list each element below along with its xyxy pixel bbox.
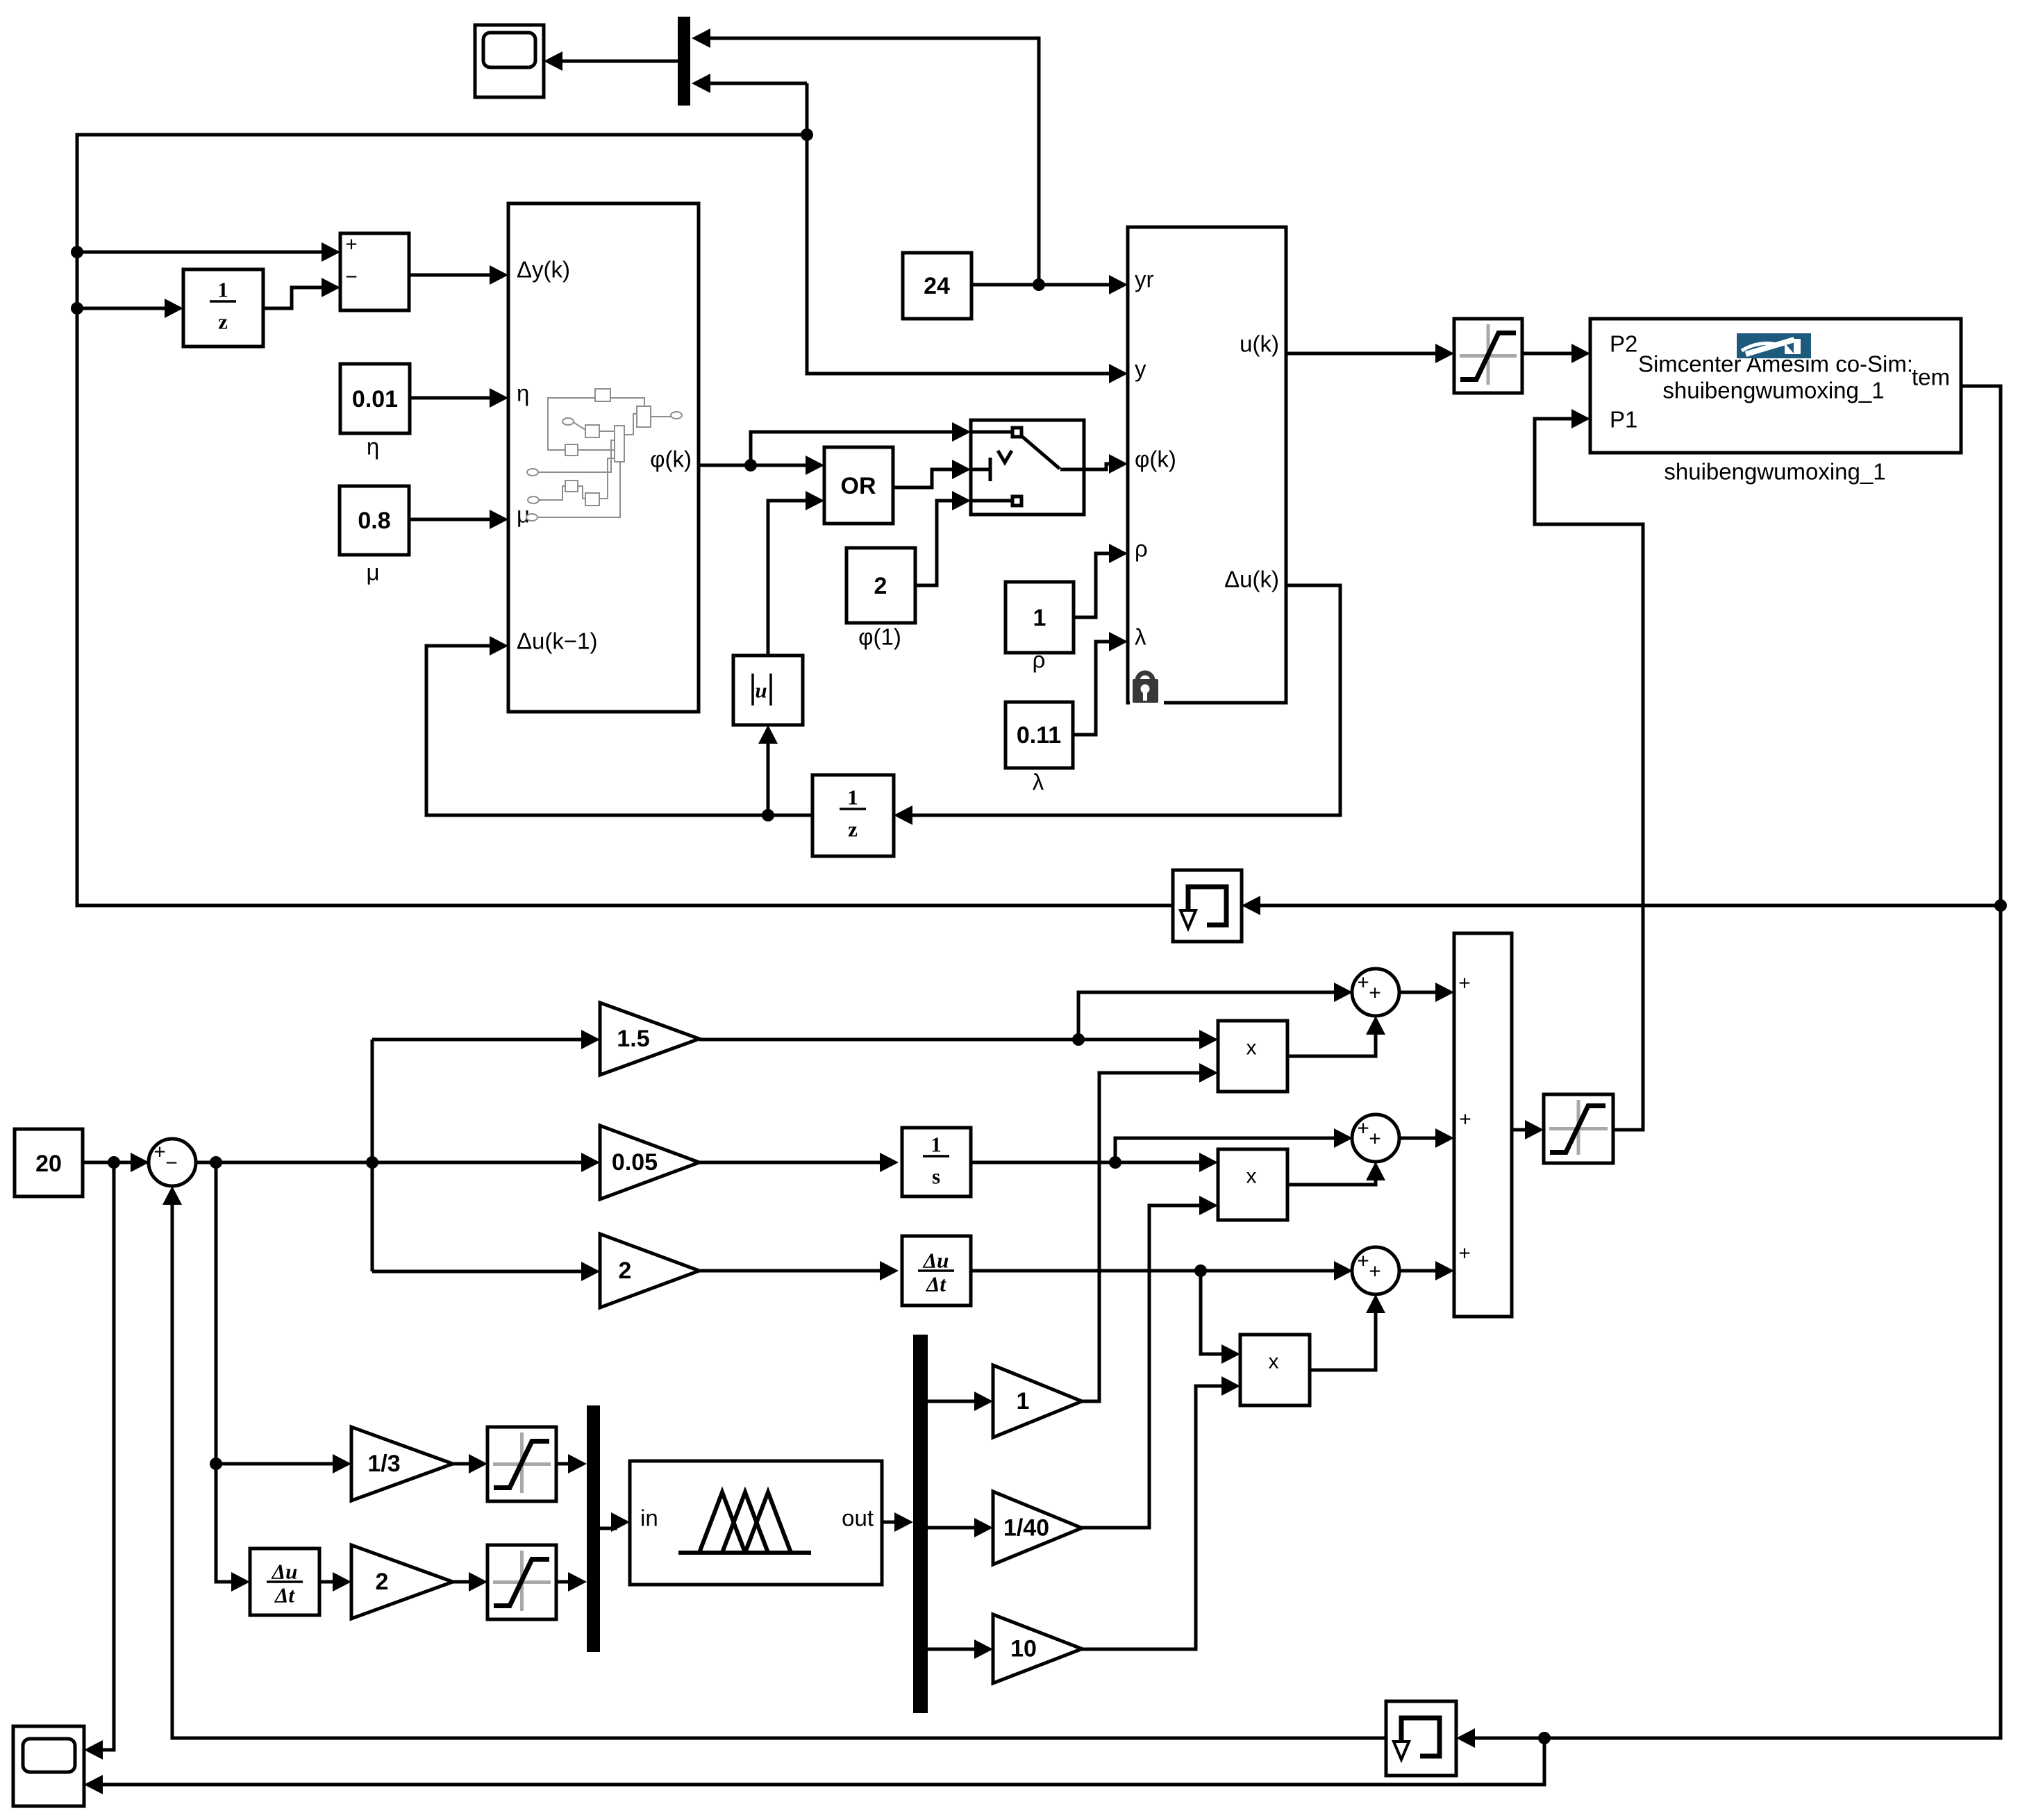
svg-text:+: + xyxy=(1369,1128,1381,1151)
svg-text:1: 1 xyxy=(1017,1388,1030,1414)
svg-text:P2: P2 xyxy=(1610,331,1637,357)
svg-text:OR: OR xyxy=(841,473,876,499)
svg-text:+: + xyxy=(1458,972,1471,995)
svg-text:ρ: ρ xyxy=(1135,536,1148,562)
svg-text:out: out xyxy=(842,1505,874,1531)
svg-text:z: z xyxy=(218,310,228,334)
svg-text:Δu: Δu xyxy=(271,1560,298,1584)
svg-text:Δt: Δt xyxy=(925,1272,946,1296)
svg-text:20: 20 xyxy=(35,1151,62,1177)
svg-text:shuibengwumoxing_1: shuibengwumoxing_1 xyxy=(1662,378,1884,403)
svg-text:s: s xyxy=(932,1164,940,1189)
svg-text:u(k): u(k) xyxy=(1240,331,1279,357)
svg-text:Δu: Δu xyxy=(922,1249,949,1273)
svg-text:Δy(k): Δy(k) xyxy=(517,257,570,283)
svg-text:1: 1 xyxy=(1033,605,1046,631)
svg-text:φ(k): φ(k) xyxy=(1135,446,1176,472)
svg-text:1/3: 1/3 xyxy=(367,1451,400,1477)
svg-text:1/40: 1/40 xyxy=(1003,1515,1049,1542)
svg-text:tem: tem xyxy=(1912,365,1950,390)
svg-text:μ: μ xyxy=(366,560,379,585)
svg-text:x: x xyxy=(1269,1351,1279,1374)
svg-text:10: 10 xyxy=(1010,1636,1037,1662)
svg-text:φ(k): φ(k) xyxy=(650,446,692,472)
svg-text:λ: λ xyxy=(1135,624,1146,650)
svg-text:1: 1 xyxy=(847,785,858,810)
svg-text:Δu(k−1): Δu(k−1) xyxy=(517,628,598,654)
svg-text:1: 1 xyxy=(931,1133,942,1157)
svg-text:+: + xyxy=(1459,1108,1471,1131)
svg-text:P1: P1 xyxy=(1610,407,1637,433)
svg-text:+: + xyxy=(345,233,358,256)
svg-text:u: u xyxy=(755,678,767,703)
svg-text:yr: yr xyxy=(1135,267,1154,292)
svg-text:x: x xyxy=(1246,1165,1257,1188)
svg-text:in: in xyxy=(640,1505,658,1531)
svg-text:η: η xyxy=(517,381,529,406)
svg-text:2: 2 xyxy=(619,1258,632,1284)
svg-text:2: 2 xyxy=(376,1569,389,1595)
svg-text:x: x xyxy=(1246,1037,1257,1060)
svg-text:shuibengwumoxing_1: shuibengwumoxing_1 xyxy=(1664,459,1885,485)
svg-text:0.05: 0.05 xyxy=(612,1149,658,1176)
svg-text:1: 1 xyxy=(217,278,228,302)
svg-text:−: − xyxy=(165,1152,178,1175)
svg-text:1.5: 1.5 xyxy=(617,1026,649,1052)
svg-text:+: + xyxy=(1369,982,1381,1005)
svg-text:0.01: 0.01 xyxy=(352,386,398,412)
svg-text:24: 24 xyxy=(924,273,950,299)
svg-text:0.11: 0.11 xyxy=(1017,722,1061,749)
svg-text:φ(1): φ(1) xyxy=(858,624,901,650)
svg-text:+: + xyxy=(153,1141,166,1164)
svg-text:0.8: 0.8 xyxy=(358,508,390,534)
svg-text:+: + xyxy=(1369,1260,1381,1283)
svg-text:+: + xyxy=(1357,1250,1369,1273)
svg-text:z: z xyxy=(848,817,858,842)
svg-text:η: η xyxy=(367,434,379,460)
svg-text:+: + xyxy=(1458,1242,1471,1265)
svg-text:λ: λ xyxy=(1033,769,1044,795)
svg-text:2: 2 xyxy=(874,573,887,599)
svg-text:−: − xyxy=(345,266,358,289)
svg-text:+: + xyxy=(1357,971,1369,994)
svg-text:ρ: ρ xyxy=(1033,647,1046,673)
svg-text:y: y xyxy=(1135,356,1146,382)
svg-text:Δu(k): Δu(k) xyxy=(1224,567,1279,592)
svg-text:Δt: Δt xyxy=(274,1583,295,1608)
svg-text:+: + xyxy=(1357,1117,1369,1140)
